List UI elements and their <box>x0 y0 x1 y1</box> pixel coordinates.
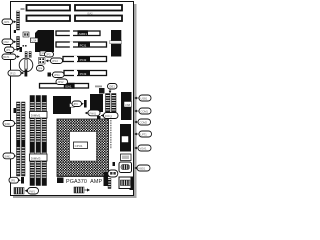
svg-text:JP10: JP10 <box>52 59 58 63</box>
svg-text:JP9: JP9 <box>73 102 78 106</box>
svg-text:PCI2: PCI2 <box>80 58 87 62</box>
svg-text:COM2: COM2 <box>140 121 148 125</box>
svg-text:JP11: JP11 <box>54 73 60 77</box>
svg-text:COM1: COM1 <box>141 110 149 114</box>
svg-text:JP13: JP13 <box>10 72 16 76</box>
svg-text:CN2: CN2 <box>4 40 10 44</box>
svg-text:AMR1: AMR1 <box>79 32 88 36</box>
svg-text:U14: U14 <box>32 39 37 43</box>
svg-text:KBD1: KBD1 <box>139 167 146 171</box>
svg-text:LPT1: LPT1 <box>141 133 148 137</box>
svg-text:FAN1: FAN1 <box>90 111 97 115</box>
svg-text:JP1: JP1 <box>6 48 11 52</box>
svg-text:JP12: JP12 <box>58 80 64 84</box>
svg-text:USB: USB <box>125 103 131 107</box>
svg-text:ISA1: ISA1 <box>65 85 72 89</box>
svg-text:USB1: USB1 <box>141 97 148 101</box>
svg-text:PGA370 AMP: PGA370 AMP <box>66 179 102 185</box>
svg-text:SIM1: SIM1 <box>5 122 12 126</box>
svg-text:JP5: JP5 <box>11 179 16 183</box>
svg-text:DIMM1: DIMM1 <box>31 114 41 118</box>
svg-text:JP4: JP4 <box>38 67 43 71</box>
svg-text:PCI3: PCI3 <box>80 72 87 76</box>
svg-text:SIM2: SIM2 <box>5 154 12 158</box>
svg-text:PCI1: PCI1 <box>80 43 87 47</box>
svg-text:JP3: JP3 <box>46 53 51 57</box>
svg-text:DIMM3: DIMM3 <box>31 156 41 160</box>
svg-text:VGA1: VGA1 <box>140 147 147 151</box>
svg-text:IDE1: IDE1 <box>109 85 115 89</box>
svg-text:J1P1: J1P1 <box>4 20 10 24</box>
svg-text:BAT1: BAT1 <box>3 55 10 59</box>
svg-text:PW1: PW1 <box>29 189 35 193</box>
svg-text:CPU1: CPU1 <box>75 144 83 148</box>
svg-text:ISA2: ISA2 <box>87 12 93 16</box>
